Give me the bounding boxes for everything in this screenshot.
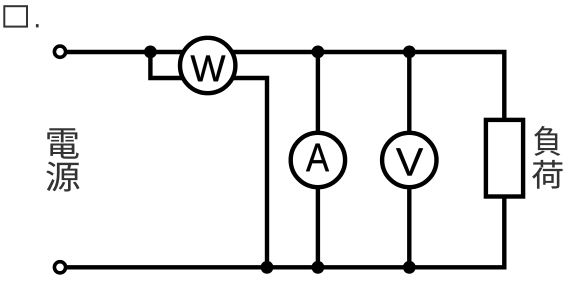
- question-number period: [36, 24, 39, 27]
- wire: ammeter branch: [316, 52, 320, 267]
- label 電 (source): [47, 128, 78, 158]
- source - terminal: [54, 262, 65, 273]
- question-number placeholder box: [4, 6, 27, 26]
- label 源 (source): [46, 161, 79, 191]
- wattmeter W: [180, 38, 235, 93]
- junction: voltmeter on bottom bus: [403, 261, 416, 274]
- source + terminal: [54, 46, 65, 57]
- junction: wattmeter return on bottom bus: [261, 261, 274, 274]
- ammeter A: [291, 133, 345, 187]
- label 負 (load): [534, 126, 560, 156]
- wire: wattmeter voltage-coil lead from top-bus junction: [150, 52, 207, 78]
- wire: bottom bus from source - terminal to load corner: [64, 196, 504, 267]
- wire: top bus from source + terminal to load corner: [64, 52, 504, 120]
- wire: voltmeter branch: [407, 52, 411, 267]
- junction: wattmeter tap on top bus: [144, 46, 157, 59]
- label 荷 (load): [532, 160, 563, 189]
- junction: voltmeter tap on top bus: [403, 46, 416, 59]
- junction: ammeter on bottom bus: [312, 261, 325, 274]
- junction: ammeter tap on top bus: [312, 46, 325, 59]
- wire: wattmeter voltage-coil return to bottom bus: [208, 78, 267, 267]
- load resistor box: [486, 120, 523, 197]
- voltmeter V: [382, 133, 436, 187]
